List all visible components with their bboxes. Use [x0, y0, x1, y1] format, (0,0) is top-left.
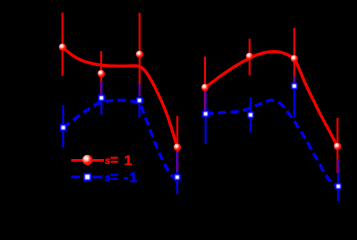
svg-text:=: = — [110, 168, 118, 184]
red error bars (s=1, right) — [205, 28, 338, 173]
svg-text:-: - — [124, 169, 129, 185]
legend blue dashed line — [71, 176, 102, 179]
legend red sphere — [82, 155, 92, 165]
purple overlaps (left) — [101, 81, 177, 172]
red curve (right) — [205, 52, 338, 147]
red sphere markers (left) — [59, 44, 181, 151]
blue square markers (right) — [202, 83, 342, 190]
blue dashed curve (left) — [63, 100, 177, 178]
red curve (left) — [63, 47, 178, 147]
svg-text:1: 1 — [129, 169, 137, 185]
blue error bars (s=-1, right) — [206, 77, 339, 202]
red error bars (s=1, left) — [63, 13, 178, 172]
red sphere markers (right) — [201, 53, 341, 150]
purple overlaps (right) — [205, 77, 338, 174]
svg-text:1: 1 — [124, 152, 132, 168]
legend blue square — [83, 173, 91, 181]
blue square markers (left) — [60, 94, 181, 180]
legend label s=1 — [105, 151, 132, 168]
blue error bars (s=-1, left) — [63, 81, 177, 194]
svg-text:=: = — [110, 151, 118, 167]
legend red line — [71, 159, 104, 162]
legend label s=-1 — [105, 168, 138, 185]
blue dashed curve (right) — [206, 100, 339, 186]
